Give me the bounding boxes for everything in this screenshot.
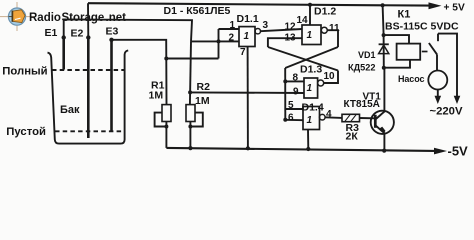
svg-text:D1 - К561ЛЕ5: D1 - К561ЛЕ5	[164, 5, 231, 17]
gate D1.2 pin14	[309, 5, 311, 25]
svg-text:9: 9	[293, 87, 299, 98]
svg-text:R2: R2	[197, 81, 211, 93]
svg-text:11: 11	[329, 23, 340, 34]
transistor VT1	[371, 111, 394, 134]
220V arrows	[435, 96, 442, 104]
wire E3 to R1	[112, 40, 167, 105]
svg-text:8: 8	[293, 73, 299, 84]
svg-text:-5V: -5V	[448, 143, 469, 158]
node pin8	[283, 79, 287, 83]
node rail-relay	[381, 3, 385, 7]
electrode E3	[110, 40, 113, 131]
latch cross d1	[268, 47, 338, 71]
node pins12	[217, 39, 221, 43]
wire E1 to gate	[64, 19, 192, 41]
svg-text:2: 2	[229, 33, 235, 44]
relay link dash	[422, 51, 428, 53]
node E3 branch	[164, 57, 168, 61]
svg-text:+ 5V: + 5V	[444, 3, 465, 14]
svg-text:6: 6	[288, 113, 294, 124]
resistor R3	[342, 114, 360, 121]
wire E3-R1 vertical to pin1 riser	[218, 29, 220, 59]
node rail-pin14	[308, 3, 312, 7]
wire pin6	[285, 119, 303, 121]
wire pin13	[268, 38, 302, 47]
gate D1.3 box	[304, 78, 318, 98]
tank empty dashed	[55, 130, 125, 132]
electrode E1	[62, 38, 65, 70]
svg-text:3: 3	[263, 20, 269, 31]
wire E2 up to rail	[87, 3, 89, 37]
wire d1 to out10	[324, 71, 338, 84]
wire pin2	[219, 40, 240, 42]
svg-text:VD1: VD1	[358, 50, 376, 60]
svg-text:D1.2: D1.2	[314, 6, 336, 18]
electrode E2	[87, 38, 90, 139]
svg-text:Насос: Насос	[398, 74, 424, 84]
tank walls	[48, 50, 129, 143]
svg-text:D1.3: D1.3	[300, 64, 322, 76]
relay K1 coil	[384, 35, 409, 44]
pump motor	[428, 71, 447, 90]
tank full dashed	[52, 69, 125, 71]
svg-text:D1.1: D1.1	[237, 13, 259, 25]
wire pin1	[219, 28, 240, 30]
R2 bottom wire	[189, 122, 191, 149]
wire R3 to base	[360, 117, 375, 119]
svg-text:1: 1	[244, 31, 250, 42]
wire E3 branch to riser	[166, 58, 218, 60]
node pins56	[283, 118, 287, 122]
svg-text:1М: 1М	[149, 90, 164, 102]
svg-text:1: 1	[307, 83, 313, 94]
rail nodes	[188, 146, 192, 150]
wire pins12 join	[191, 40, 219, 42]
rail arrow	[429, 2, 442, 9]
wire E1node down to R2	[190, 41, 191, 104]
R1 bottom wire	[165, 122, 167, 148]
svg-text:5: 5	[288, 100, 294, 111]
wire pin5	[285, 108, 303, 110]
wire pin7	[247, 47, 249, 149]
svg-text:E3: E3	[106, 26, 119, 38]
R2 tap	[190, 113, 202, 127]
svg-text:Radio: Radio	[29, 12, 61, 24]
svg-text:Пустой: Пустой	[6, 126, 46, 138]
node E1 pin9 branch	[188, 90, 192, 94]
svg-text:14: 14	[297, 15, 309, 26]
gate D1.2 box	[302, 25, 321, 45]
wire out4 to R3	[325, 116, 342, 119]
wire pin8	[285, 80, 304, 82]
logo circle	[8, 8, 25, 25]
svg-text:7: 7	[240, 47, 246, 58]
svg-text:BS-115C 5VDC: BS-115C 5VDC	[385, 21, 459, 33]
logo transistor	[9, 10, 25, 23]
relay contact	[437, 34, 439, 42]
svg-text:~220V: ~220V	[430, 106, 463, 118]
wire D1.4 gnd	[307, 130, 309, 150]
svg-text:1: 1	[307, 30, 313, 41]
top +5V rail	[88, 3, 429, 5]
svg-text:12: 12	[285, 22, 297, 33]
svg-text:К1: К1	[398, 9, 411, 21]
resistor R1	[162, 105, 171, 122]
wire out11	[327, 30, 338, 47]
svg-text:КД522: КД522	[348, 63, 375, 73]
logo text	[29, 12, 126, 24]
svg-text:2К: 2К	[346, 131, 359, 143]
svg-text:1: 1	[230, 20, 236, 31]
resistor R2	[186, 105, 195, 122]
svg-text:E1: E1	[45, 27, 58, 39]
svg-text:Бак: Бак	[60, 104, 80, 116]
R1 tap	[155, 113, 167, 127]
svg-text:Полный: Полный	[2, 65, 47, 77]
svg-text:Storage: Storage	[62, 12, 105, 24]
op-amp D1.1 box	[239, 27, 255, 47]
latch cross d2	[285, 47, 338, 68]
svg-text:D1.4: D1.4	[302, 102, 324, 114]
gate D1.4 box	[303, 107, 320, 130]
diode VD1	[383, 5, 384, 35]
svg-text:.net: .net	[106, 12, 127, 24]
VT1 collector	[375, 68, 384, 120]
gate fn symbols	[244, 30, 313, 126]
svg-text:13: 13	[285, 33, 297, 44]
svg-text:1М: 1М	[195, 95, 210, 107]
wire pin9	[190, 91, 304, 94]
wire d2 down pins8-56	[284, 68, 286, 120]
svg-text:E2: E2	[71, 28, 84, 40]
svg-text:4: 4	[326, 109, 332, 120]
svg-text:1: 1	[307, 115, 313, 126]
wire out3 to pin12	[261, 29, 303, 31]
logo crosshair	[0, 2, 34, 31]
bottom -5V rail	[166, 148, 434, 151]
VT1 emitter	[375, 125, 384, 150]
svg-text:10: 10	[324, 71, 336, 82]
svg-text:КТ815А: КТ815А	[344, 99, 380, 110]
